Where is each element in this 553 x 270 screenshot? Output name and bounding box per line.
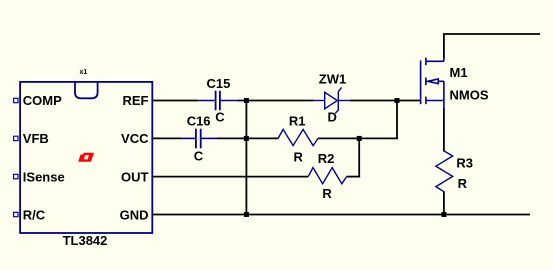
svg-text:D: D: [328, 110, 337, 125]
svg-text:ISense: ISense: [23, 169, 65, 184]
resistor R3: [436, 151, 453, 192]
svg-text:R1: R1: [289, 113, 306, 128]
wire vertical bus x246.4 REF to GND: [245, 101, 247, 215]
zener diode ZW1: [314, 87, 350, 113]
svg-text:VCC: VCC: [121, 131, 149, 146]
wire vertical x397 from REF to VCC: [396, 101, 398, 140]
svg-text:C: C: [194, 149, 204, 164]
capacitor C15: [198, 91, 237, 111]
pin COMP (pin square + label): [14, 98, 18, 102]
svg-text:R: R: [458, 176, 468, 191]
junction dot REF x397: [395, 98, 400, 103]
svg-text:TL3842: TL3842: [63, 233, 108, 248]
wire R3 to GND: [443, 191, 445, 214]
svg-text:C15: C15: [207, 76, 231, 91]
svg-text:R3: R3: [456, 156, 473, 171]
wire GND row: IC to right end: [152, 214, 530, 216]
IC U1 TL3842 body: [20, 82, 152, 233]
svg-text:ZW1: ZW1: [319, 71, 346, 86]
svg-text:GND: GND: [120, 207, 149, 222]
svg-text:M1: M1: [450, 65, 468, 80]
svg-text:VFB: VFB: [23, 131, 49, 146]
wire REF row: diode to MOSFET gate: [350, 100, 421, 102]
svg-text:R: R: [294, 150, 304, 165]
junction dot REF x bus: [244, 98, 249, 103]
wire vertical x359 from VCC to OUT: [358, 138, 360, 177]
svg-text:OUT: OUT: [121, 169, 149, 184]
resistor R2: [308, 168, 346, 184]
wire MOSFET source to R3: [443, 108, 445, 152]
wire REF row: C15 to diode: [237, 100, 313, 102]
junction dot VCC x359: [357, 136, 362, 141]
svg-text:R/C: R/C: [23, 207, 46, 222]
wire VCC row: R1 to corner x397: [318, 137, 397, 139]
resistor R1: [278, 129, 318, 145]
pin VFB: [14, 136, 18, 140]
capacitor C16: [182, 129, 217, 149]
svg-text:x1: x1: [80, 69, 88, 76]
junction dot GND x bus: [244, 212, 249, 217]
pin ISense: [14, 174, 18, 178]
IC logo (red parallelogram with hole): [78, 153, 94, 162]
svg-text:R: R: [322, 186, 332, 201]
wire OUT row: R2 to corner x359: [347, 176, 361, 178]
svg-text:C: C: [215, 110, 225, 125]
svg-text:NMOS: NMOS: [450, 88, 489, 103]
wire OUT row: IC to R2: [152, 176, 308, 178]
wire VCC row: IC to C16: [152, 137, 181, 139]
wire REF row: IC to C15: [152, 100, 198, 102]
transistor M1 NMOS: [421, 56, 444, 110]
svg-text:C16: C16: [187, 114, 211, 129]
junction dot VCC x bus: [244, 136, 249, 141]
pin R/C: [14, 212, 18, 216]
svg-text:R2: R2: [318, 151, 335, 166]
wire VCC row: C16 to R1: [217, 137, 279, 139]
wire MOSFET drain up and right: [444, 34, 540, 58]
junction dot GND x R3: [441, 212, 446, 217]
svg-text:REF: REF: [123, 93, 149, 108]
svg-text:COMP: COMP: [23, 93, 62, 108]
